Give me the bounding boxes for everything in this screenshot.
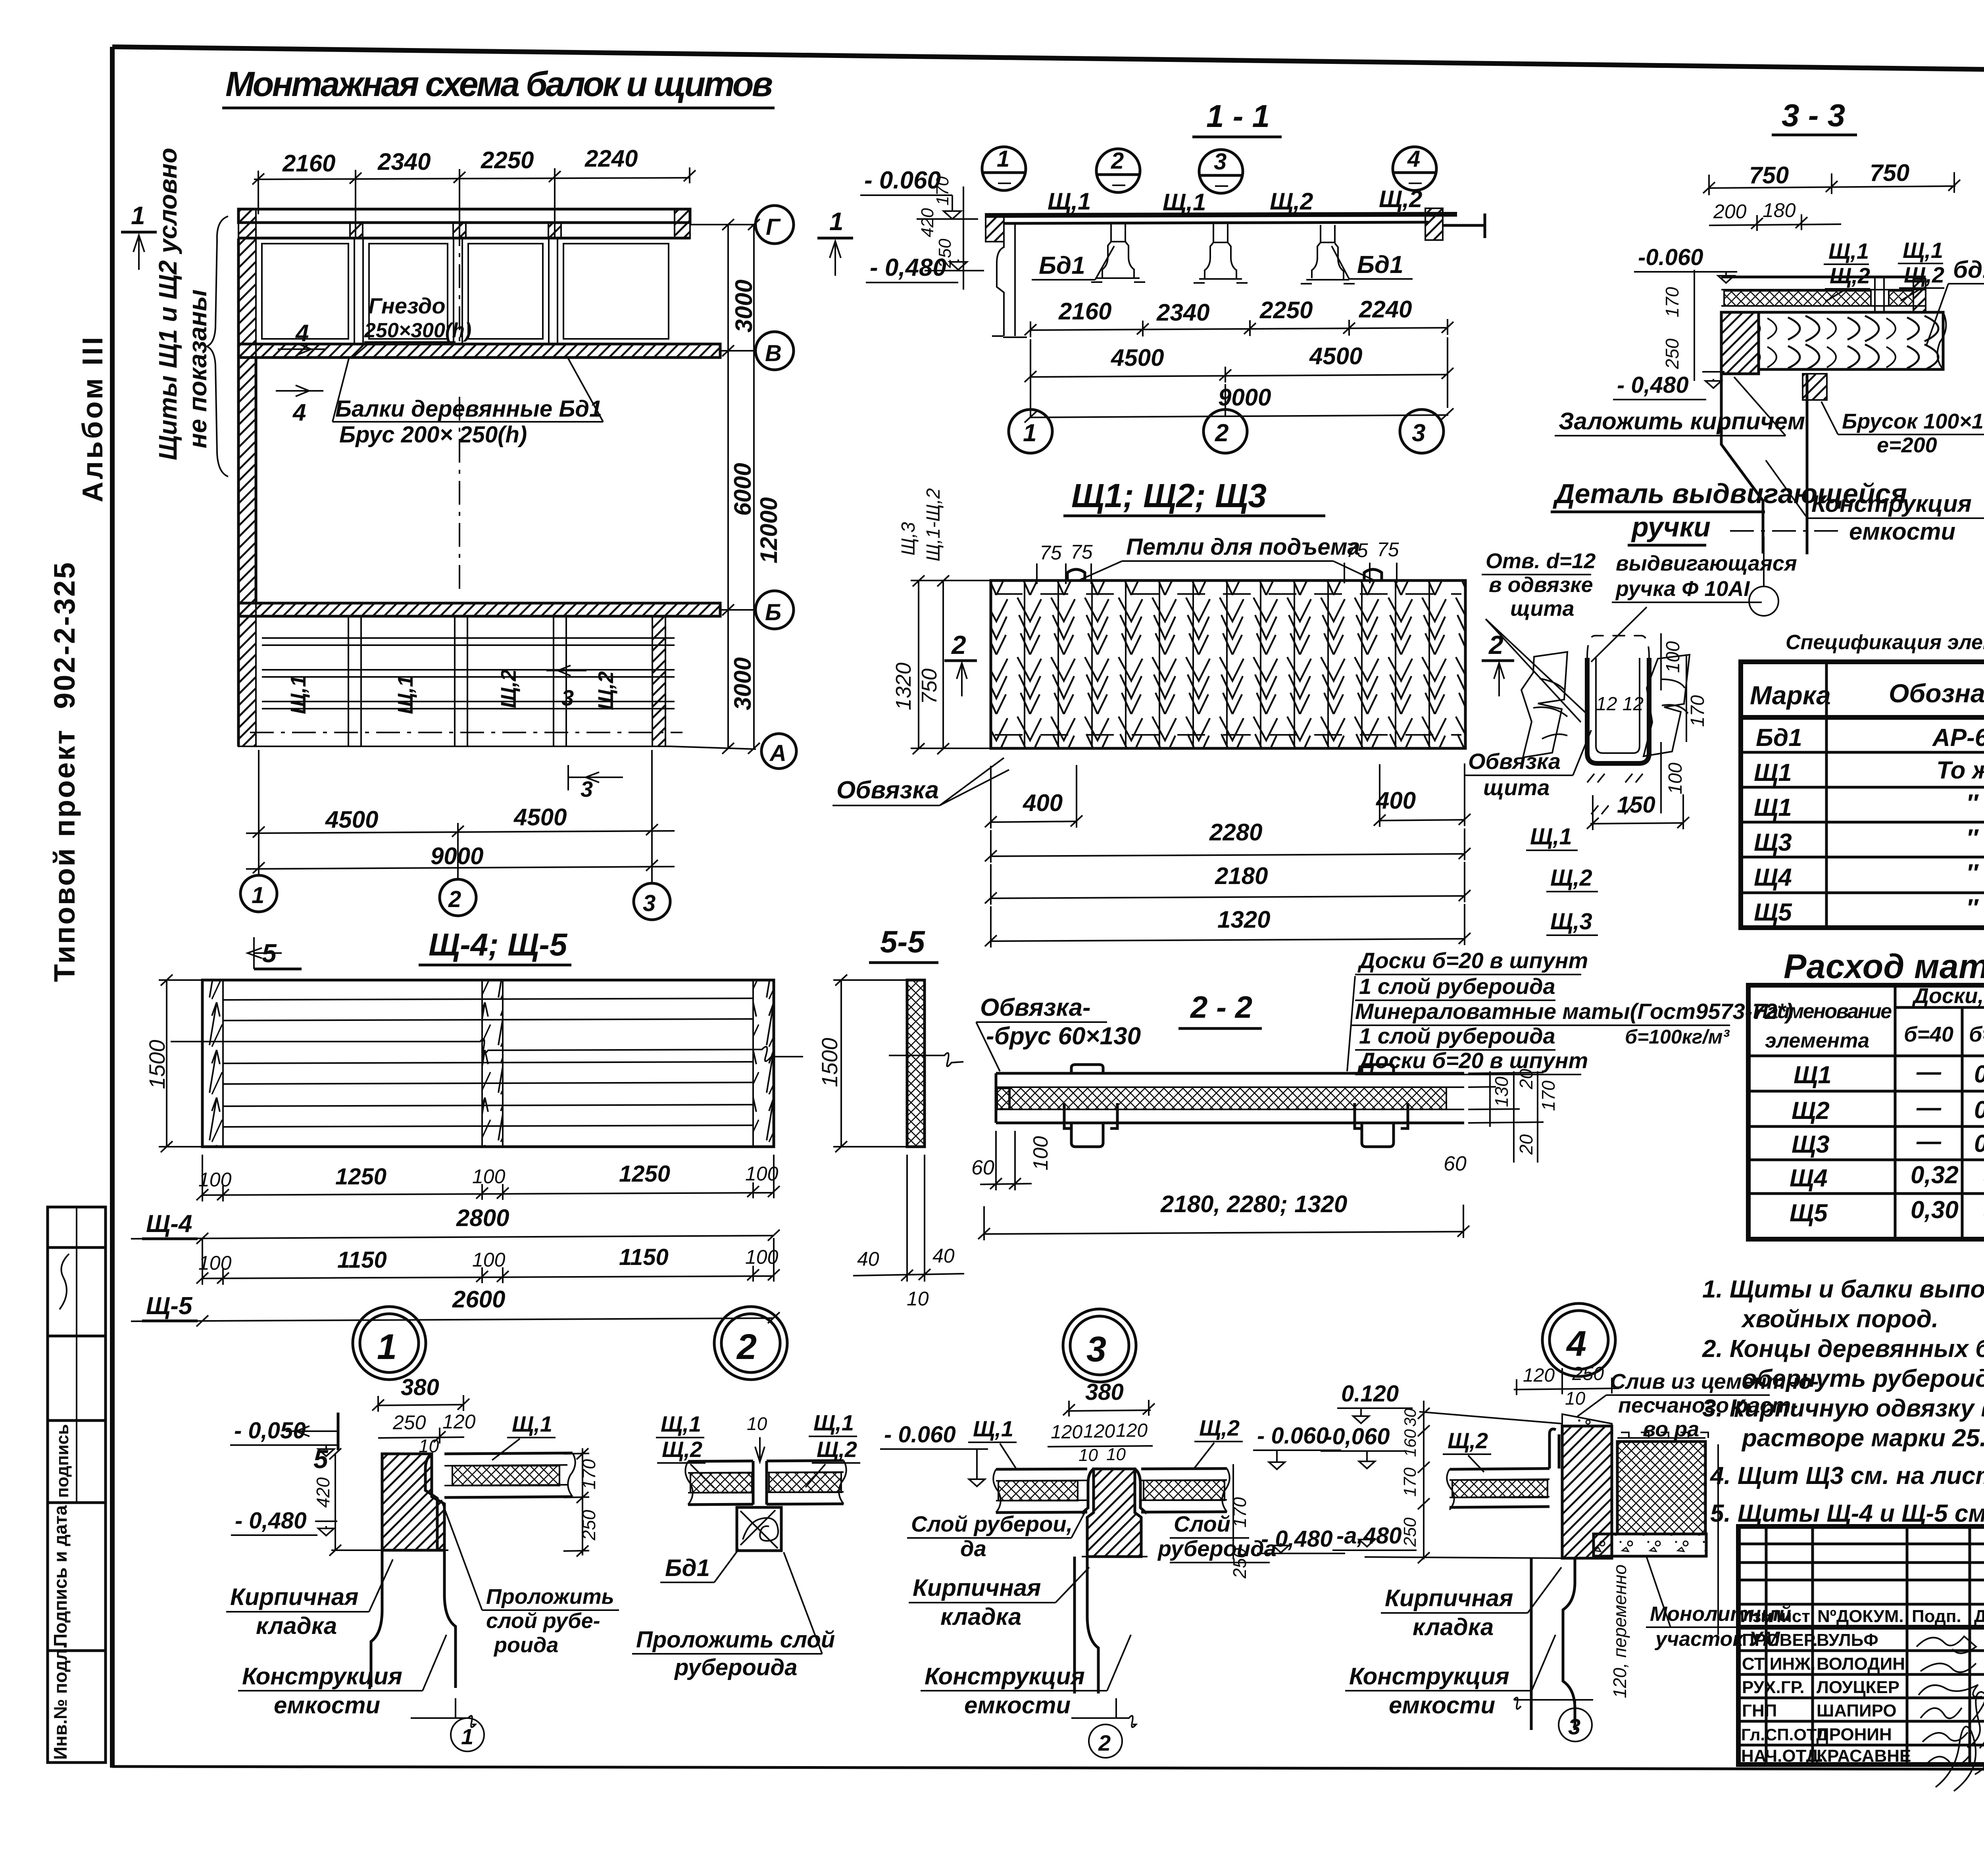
svg-text:роида: роида [493, 1633, 558, 1657]
svg-text:20: 20 [1516, 1134, 1536, 1155]
svg-text:Щ1: Щ1 [1754, 759, 1792, 786]
svg-text:1320: 1320 [892, 663, 915, 710]
svg-text:щита: щита [1510, 597, 1575, 621]
svg-text:Щ,1: Щ,1 [973, 1416, 1013, 1441]
svg-text:емкости: емкости [274, 1692, 380, 1718]
svg-text:Щ5: Щ5 [1754, 899, 1792, 926]
svg-text:СТ ИНЖ.: СТ ИНЖ. [1742, 1654, 1815, 1674]
svg-text:170: 170 [1229, 1497, 1250, 1528]
pier with sloped cap [1562, 1426, 1612, 1558]
svg-text:2: 2 [448, 886, 461, 912]
svg-text:Балки деревянные Бд1: Балки деревянные Бд1 [335, 396, 602, 422]
svg-text:ГНП: ГНП [1742, 1701, 1777, 1720]
svg-text:ручка Ф 10АI: ручка Ф 10АI [1615, 577, 1750, 601]
PANEL Shch4-5 front view [131, 927, 803, 1474]
right axis circles and dims [690, 224, 756, 225]
svg-text:Щ1; Щ2; Щ3: Щ1; Щ2; Щ3 [1071, 477, 1267, 514]
svg-text:1: 1 [131, 201, 145, 230]
svg-text:Обозначение: Обозначение [1889, 679, 1984, 708]
svg-text:170: 170 [579, 1459, 599, 1490]
deck line [985, 214, 1457, 215]
svg-text:12000: 12000 [756, 497, 782, 563]
svg-text:250: 250 [935, 238, 955, 268]
svg-text:6000: 6000 [729, 463, 756, 516]
svg-text:3. Кирпичную одвязку выполнять: 3. Кирпичную одвязку выполнять из кирпич… [1702, 1395, 1984, 1422]
svg-text:Монолитный: Монолитный [1650, 1603, 1791, 1626]
svg-text:—: — [1916, 1058, 1942, 1086]
svg-text:Щ,2: Щ,2 [1270, 188, 1313, 215]
svg-text:3: 3 [1412, 419, 1425, 447]
svg-text:250: 250 [579, 1510, 599, 1541]
svg-text:10: 10 [747, 1413, 767, 1434]
svg-text:Кирпичная: Кирпичная [230, 1584, 358, 1610]
svg-text:Щ,2: Щ,2 [817, 1437, 857, 1462]
svg-text:хвойных пород.: хвойных пород. [1741, 1305, 1938, 1333]
svg-text:4: 4 [295, 320, 309, 346]
svg-text:бд1: бд1 [1953, 256, 1984, 283]
svg-text:40: 40 [932, 1245, 955, 1267]
svg-text:Обвязка-: Обвязка- [980, 994, 1091, 1021]
svg-text:4500: 4500 [1111, 344, 1164, 371]
svg-text:подпись: подпись [53, 1424, 72, 1498]
tank wall [1721, 374, 1807, 554]
svg-text:КРАСАВНЕ: КРАСАВНЕ [1817, 1746, 1911, 1766]
svg-text:- 0.060: - 0.060 [884, 1422, 956, 1447]
svg-text:10: 10 [907, 1288, 929, 1310]
svg-text:1 - 1: 1 - 1 [1206, 98, 1270, 134]
svg-text:0,07: 0,07 [1974, 1061, 1984, 1088]
svg-text:NºДОКУМ.: NºДОКУМ. [1817, 1607, 1904, 1626]
top support circles [982, 146, 1436, 193]
brick block [382, 1454, 444, 1550]
svg-text:2240: 2240 [584, 145, 638, 172]
svg-text:2250: 2250 [1259, 297, 1313, 323]
svg-text:- 0,050: - 0,050 [234, 1418, 306, 1444]
svg-text:4: 4 [292, 399, 306, 426]
svg-text:3000: 3000 [729, 657, 756, 710]
svg-text:3: 3 [581, 777, 593, 802]
svg-text:—: — [1916, 1094, 1942, 1121]
svg-text:0.120: 0.120 [1341, 1381, 1399, 1407]
svg-text:В: В [765, 340, 782, 366]
svg-text:30: 30 [1401, 1408, 1419, 1427]
svg-text:Щиты Щ1 и Щ2 условно: Щиты Щ1 и Щ2 условно [154, 148, 182, 460]
brusok [1803, 374, 1827, 400]
svg-text:обернуть рубероидом по мес: обернуть рубероидом по месту. [1742, 1365, 1984, 1392]
svg-text:2: 2 [1111, 148, 1124, 174]
wall below [1531, 1558, 1575, 1730]
DETAIL 1 [226, 1374, 619, 1751]
svg-text:150: 150 [1617, 792, 1655, 818]
svg-text:2. Концы деревянных балок, в: 2. Концы деревянных балок, в местах опир… [1702, 1335, 1984, 1363]
svg-text:75: 75 [1040, 542, 1062, 564]
svg-text:Обвязка: Обвязка [836, 777, 939, 804]
svg-text:2280: 2280 [1209, 819, 1262, 846]
svg-text:100: 100 [472, 1249, 506, 1271]
HANDLE DETAIL [1464, 478, 1907, 830]
svg-text:″: ″ [1966, 894, 1979, 922]
svg-text:в одвязке: в одвязке [1489, 573, 1593, 597]
svg-text:170: 170 [1538, 1080, 1559, 1111]
svg-text:2160: 2160 [1058, 298, 1111, 325]
signatures [1917, 1636, 1976, 1653]
svg-text:ВУЛЬФ: ВУЛЬФ [1817, 1630, 1878, 1650]
svg-text:Инв.№ подл.: Инв.№ подл. [50, 1644, 71, 1760]
DETAIL 4 [1321, 1363, 1819, 1741]
svg-text:9000: 9000 [431, 843, 483, 869]
svg-text:кладка: кладка [1413, 1614, 1494, 1640]
DETAIL 2 [632, 1410, 988, 1680]
svg-text:Щ3: Щ3 [1792, 1131, 1830, 1158]
svg-text:75: 75 [1346, 539, 1368, 561]
svg-text:- 0.060: - 0.060 [1257, 1423, 1329, 1449]
SECTION 1-1 [860, 98, 1485, 453]
svg-text:РУХ.ГР.: РУХ.ГР. [1742, 1678, 1805, 1697]
svg-text:170: 170 [1662, 287, 1682, 317]
svg-text:элемента: элемента [1765, 1029, 1869, 1052]
svg-text:Бд1: Бд1 [1357, 251, 1403, 279]
svg-text:1500: 1500 [144, 1040, 169, 1089]
svg-text:То же: То же [1936, 757, 1984, 784]
svg-text:120: 120 [1523, 1365, 1555, 1386]
section mark 3 [546, 670, 586, 671]
panel sandwich [1447, 1429, 1559, 1510]
svg-text:100: 100 [1663, 641, 1684, 673]
svg-text:Щ5: Щ5 [1790, 1199, 1828, 1227]
svg-text:кладка: кладка [256, 1613, 337, 1639]
sandwich panel [1721, 277, 1926, 312]
svg-text:растворе марки 25.: растворе марки 25. [1741, 1424, 1984, 1452]
svg-text:5. Щиты Щ-4 и Щ-5 см. на лист: 5. Щиты Щ-4 и Щ-5 см. на листе КЖ-23. [1710, 1500, 1984, 1527]
svg-text:-брус 60×130: -брус 60×130 [986, 1023, 1141, 1050]
svg-text:4. Щит Щ3 см. на листе КЖ-5.: 4. Щит Щ3 см. на листе КЖ-5. [1709, 1462, 1984, 1490]
svg-text:1320: 1320 [1217, 906, 1270, 933]
svg-text:ЛОУЦКЕР: ЛОУЦКЕР [1817, 1678, 1899, 1697]
svg-text:2180, 2280; 1320: 2180, 2280; 1320 [1160, 1191, 1347, 1217]
bottom of plan + dims [238, 746, 671, 747]
svg-text:Щ,1: Щ,1 [1048, 188, 1091, 215]
panels left and right of pier [993, 1469, 1229, 1513]
svg-text:Конструкция: Конструкция [242, 1663, 402, 1690]
panel rect [202, 980, 774, 1147]
svg-text:130: 130 [1491, 1076, 1512, 1107]
svg-text:Щ,1: Щ,1 [286, 675, 310, 714]
svg-text:Расход материалов на один эле: Расход материалов на один элемент [1784, 948, 1984, 986]
svg-text:е=200: е=200 [1877, 433, 1937, 457]
svg-text:емкости: емкости [1849, 518, 1955, 545]
svg-text:Спецификация элементов к марки: Спецификация элементов к маркировочным с… [1786, 631, 1984, 654]
svg-text:Кирпичная: Кирпичная [1385, 1585, 1513, 1611]
svg-text:Конструкция: Конструкция [925, 1663, 1085, 1690]
svg-text:-0.060: -0.060 [1638, 244, 1703, 270]
clamp bolts [1071, 1065, 1103, 1073]
svg-text:Щ,1-Щ,2: Щ,1-Щ,2 [923, 488, 944, 561]
svg-text:10: 10 [1565, 1388, 1586, 1409]
TITLE BLOCK [1738, 1526, 1984, 1821]
svg-text:2240: 2240 [1359, 296, 1412, 323]
svg-text:1 слой рубероида: 1 слой рубероида [1359, 974, 1555, 999]
left wall [238, 238, 256, 746]
svg-text:ШАПИРО: ШАПИРО [1817, 1701, 1897, 1720]
svg-text:250: 250 [1400, 1517, 1420, 1547]
svg-text:Подп.: Подп. [1912, 1607, 1961, 1626]
svg-text:4500: 4500 [1309, 343, 1362, 369]
svg-text:1: 1 [1023, 419, 1036, 447]
svg-text:″: ″ [1966, 825, 1979, 852]
svg-text:1150: 1150 [337, 1247, 387, 1273]
svg-text:Проложить слой: Проложить слой [636, 1627, 835, 1653]
svg-text:Конструкция: Конструкция [1349, 1663, 1509, 1690]
svg-text:Отв. d=12: Отв. d=12 [1486, 549, 1596, 573]
PLAN: Montazhnaya skhema [121, 64, 853, 920]
svg-text:Бд1: Бд1 [1039, 252, 1085, 279]
lower bays with beams [348, 616, 566, 746]
svg-text:″: ″ [1966, 790, 1979, 817]
svg-text:Щ,1: Щ,1 [1903, 238, 1943, 263]
svg-text:100: 100 [1029, 1136, 1052, 1171]
svg-text:2250: 2250 [481, 147, 534, 173]
svg-text:1: 1 [252, 882, 264, 908]
svg-text:Щ4: Щ4 [1790, 1165, 1828, 1192]
svg-text:″: ″ [1966, 859, 1979, 887]
svg-text:щита: щита [1483, 775, 1550, 800]
svg-text:120: 120 [1083, 1421, 1115, 1442]
svg-text:200: 200 [1713, 200, 1747, 223]
svg-text:Деталь выдвигающейся: Деталь выдвигающейся [1553, 478, 1907, 509]
svg-text:Монтажная схема балок и щитов: Монтажная схема балок и щитов [225, 64, 773, 104]
svg-text:- 0,480: - 0,480 [1261, 1526, 1333, 1552]
svg-text:4: 4 [1407, 146, 1420, 172]
svg-text:120: 120 [1051, 1422, 1082, 1443]
upper bays partitions [262, 238, 669, 344]
svg-text:Б: Б [765, 600, 781, 625]
svg-text:1250: 1250 [335, 1164, 386, 1190]
svg-text:Брус 200× 250(h): Брус 200× 250(h) [339, 422, 527, 448]
DETAIL 3 [907, 1379, 1345, 1758]
panel body [991, 580, 1465, 748]
svg-text:1: 1 [997, 146, 1009, 172]
sandwich [996, 1065, 1464, 1147]
svg-text:100: 100 [472, 1165, 506, 1188]
SPEC TABLE [1741, 631, 1984, 932]
svg-text:Щ1: Щ1 [1794, 1061, 1832, 1089]
svg-text:Щ1: Щ1 [1754, 794, 1792, 821]
svg-text:Доски б=20 в шпунт: Доски б=20 в шпунт [1357, 1048, 1588, 1073]
svg-text:Щ,1: Щ,1 [394, 675, 417, 714]
svg-text:НАЧ.ОТД.: НАЧ.ОТД. [1741, 1746, 1823, 1766]
svg-text:Г: Г [766, 214, 781, 240]
svg-text:1. Щиты и балки выполнять из а: 1. Щиты и балки выполнять из антисептиро… [1702, 1276, 1984, 1303]
svg-text:Щ,1: Щ,1 [1828, 238, 1869, 263]
svg-text:Кирпичная: Кирпичная [913, 1574, 1041, 1601]
svg-text:3: 3 [1214, 149, 1227, 175]
svg-text:120: 120 [442, 1411, 476, 1433]
svg-text:Щ,1: Щ,1 [1163, 189, 1206, 215]
svg-text:9000: 9000 [1218, 384, 1271, 411]
svg-text:емкости: емкости [964, 1692, 1071, 1718]
central pier [1087, 1469, 1141, 1557]
svg-text:400: 400 [1023, 790, 1063, 816]
svg-text:Щ4: Щ4 [1754, 864, 1792, 891]
svg-text:3: 3 [1086, 1330, 1106, 1369]
svg-text:40: 40 [857, 1248, 879, 1270]
svg-text:380: 380 [401, 1374, 439, 1400]
svg-text:Бд1: Бд1 [665, 1555, 710, 1581]
svg-text:4500: 4500 [513, 804, 567, 830]
supports [1091, 223, 1355, 284]
svg-text:60: 60 [971, 1156, 994, 1179]
svg-text:170: 170 [933, 176, 952, 206]
svg-text:Щ-4: Щ-4 [146, 1210, 192, 1238]
svg-text:Брусок 100×100: Брусок 100×100 [1842, 409, 1984, 433]
svg-text:не показаны: не показаны [183, 289, 212, 448]
svg-text:да: да [960, 1536, 986, 1561]
svg-text:12 12: 12 12 [1596, 694, 1644, 715]
svg-text:250: 250 [1229, 1548, 1250, 1579]
svg-text:- 0,480: - 0,480 [235, 1508, 307, 1534]
svg-text:ПРОНИН: ПРОНИН [1817, 1725, 1892, 1744]
svg-text:160: 160 [1401, 1429, 1419, 1457]
bottom section mark 5 [337, 1413, 340, 1450]
svg-text:рубероида: рубероида [1157, 1536, 1277, 1561]
svg-text:2: 2 [1215, 419, 1228, 447]
svg-text:1150: 1150 [619, 1244, 669, 1270]
svg-text:б=100кг/м³: б=100кг/м³ [1625, 1026, 1730, 1048]
svg-text:0,30: 0,30 [1911, 1196, 1959, 1224]
svg-text:420: 420 [918, 208, 937, 237]
svg-text:2340: 2340 [377, 148, 431, 175]
two panels with joint [685, 1461, 846, 1505]
svg-text:380: 380 [1085, 1379, 1124, 1405]
masonry + beam [1721, 312, 1759, 374]
svg-text:1250: 1250 [619, 1161, 670, 1187]
svg-text:- 0.060: - 0.060 [864, 167, 941, 194]
svg-text:-0,060: -0,060 [1325, 1424, 1390, 1449]
svg-text:400: 400 [1376, 787, 1416, 814]
wall band B [238, 603, 720, 616]
svg-text:Подпись и дата: Подпись и дата [50, 1505, 71, 1647]
svg-text:Гл.СП.ОТД: Гл.СП.ОТД [1741, 1725, 1828, 1744]
wall below [371, 1550, 456, 1688]
svg-text:3 - 3: 3 - 3 [1782, 98, 1845, 133]
svg-text:слой рубе-: слой рубе- [486, 1609, 600, 1633]
svg-text:1 слой рубероида: 1 слой рубероида [1359, 1023, 1555, 1048]
svg-text:емкости: емкости [1389, 1692, 1495, 1718]
svg-text:250: 250 [1572, 1363, 1604, 1384]
svg-text:ВОЛОДИН: ВОЛОДИН [1817, 1654, 1905, 1674]
svg-text:Щ,2: Щ,2 [1199, 1415, 1240, 1440]
svg-text:170: 170 [1687, 695, 1708, 727]
svg-text:Слой: Слой [1174, 1511, 1230, 1536]
svg-text:750: 750 [1749, 162, 1789, 188]
left pier under deck [997, 223, 1015, 336]
svg-text:3: 3 [561, 685, 574, 710]
svg-text:2 - 2: 2 - 2 [1190, 990, 1252, 1024]
parapet crosshatch [1617, 1442, 1705, 1534]
svg-text:1500: 1500 [817, 1038, 842, 1087]
svg-text:Проложить: Проложить [486, 1585, 614, 1609]
svg-text:3: 3 [1568, 1714, 1580, 1739]
svg-text:Щ,2: Щ,2 [662, 1437, 702, 1462]
wall band V [238, 344, 720, 358]
svg-text:250: 250 [392, 1411, 426, 1434]
svg-text:2160: 2160 [282, 150, 335, 177]
svg-text:Заложить кирпичем: Заложить кирпичем [1559, 408, 1805, 434]
svg-text:Обвязка: Обвязка [1468, 749, 1561, 774]
svg-text:Бд1: Бд1 [1756, 724, 1802, 752]
beam end block below joint [737, 1507, 781, 1551]
SECTION 2-2 [971, 948, 1793, 1240]
MATERIALS TABLE [1748, 948, 1984, 1244]
svg-text:60: 60 [1444, 1152, 1467, 1175]
svg-text:1: 1 [829, 207, 844, 236]
svg-text:б=40: б=40 [1904, 1023, 1953, 1046]
svg-text:10: 10 [1106, 1445, 1126, 1464]
svg-text:рубероида: рубероида [674, 1655, 797, 1680]
svg-text:5-5: 5-5 [880, 924, 925, 959]
svg-text:2: 2 [951, 630, 966, 659]
svg-text:АР-6: АР-6 [1932, 724, 1984, 752]
BIG DETAIL CIRCLES [353, 1303, 1615, 1382]
svg-text:Слой руберои,: Слой руберои, [911, 1511, 1073, 1536]
NOTES [1702, 1276, 1984, 1527]
svg-text:2600: 2600 [452, 1286, 505, 1313]
handle U shape [1587, 658, 1649, 763]
svg-text:б=20: б=20 [1969, 1023, 1984, 1046]
panel sandwich [444, 1453, 575, 1497]
svg-text:250×300(h): 250×300(h) [364, 319, 471, 342]
svg-text:ДАТА: ДАТА [1974, 1607, 1984, 1626]
lifting loops [1067, 569, 1085, 580]
svg-text:Щ,1: Щ,1 [512, 1411, 552, 1436]
svg-text:Альбом III: Альбом III [77, 334, 109, 502]
wall below [1075, 1557, 1098, 1693]
svg-text:4: 4 [1566, 1324, 1586, 1364]
svg-text:120: 120 [1116, 1420, 1148, 1441]
svg-text:Марка: Марка [1750, 680, 1831, 710]
svg-text:Доски б=20 в шпунт: Доски б=20 в шпунт [1357, 948, 1588, 973]
svg-text:170: 170 [1400, 1467, 1420, 1497]
svg-text:100: 100 [198, 1169, 232, 1191]
svg-text:А: А [769, 740, 786, 766]
svg-text:Щ,2: Щ,2 [497, 669, 521, 708]
svg-text:0,32: 0,32 [1911, 1161, 1959, 1189]
svg-text:2340: 2340 [1156, 299, 1209, 326]
svg-text:2: 2 [1098, 1730, 1111, 1755]
svg-text:Щ,2: Щ,2 [594, 671, 618, 710]
svg-text:120, переменно: 120, переменно [1609, 1565, 1630, 1698]
svg-text:Щ3: Щ3 [1754, 829, 1792, 856]
svg-text:75: 75 [1377, 538, 1399, 561]
svg-text:Щ-4; Щ-5: Щ-4; Щ-5 [429, 927, 568, 962]
svg-text:Щ2: Щ2 [1792, 1097, 1830, 1124]
svg-text:Щ,2: Щ,2 [1448, 1428, 1488, 1453]
left stamp strip [48, 1207, 106, 1763]
svg-text:Петли для подъема: Петли для подъема [1126, 534, 1360, 560]
left revision columns [1738, 1543, 1984, 1545]
svg-text:Щ-5: Щ-5 [146, 1292, 193, 1320]
axis circles 1 2 3 [240, 875, 277, 912]
svg-text:3000: 3000 [731, 280, 757, 333]
svg-text:Щ,1: Щ,1 [813, 1410, 854, 1435]
svg-text:Щ,1: Щ,1 [1530, 824, 1572, 850]
svg-text:Щ,3: Щ,3 [898, 522, 919, 555]
svg-text:10: 10 [1079, 1445, 1098, 1465]
svg-text:Минераловатные маты(Гост9573-7: Минераловатные маты(Гост9573-72*) [1355, 999, 1793, 1024]
svg-text:2180: 2180 [1215, 863, 1268, 889]
svg-text:2800: 2800 [456, 1205, 509, 1231]
svg-text:ручки: ручки [1631, 511, 1711, 542]
